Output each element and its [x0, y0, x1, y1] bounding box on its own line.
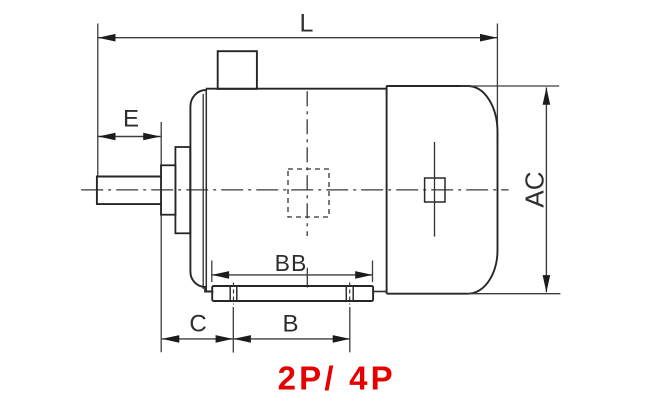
- bar to housing connector: [373, 291, 387, 293]
- svg-text:BB: BB: [275, 250, 308, 276]
- svg-text:L: L: [300, 10, 314, 38]
- extension line E right / C left (shared): [160, 122, 162, 352]
- dimension BB extension line left: [211, 261, 213, 283]
- svg-text:C: C: [189, 311, 206, 338]
- svg-text:B: B: [282, 311, 298, 338]
- centre line vertical (body): [306, 91, 308, 236]
- AC bottom extension line: [468, 293, 560, 295]
- dimension BB line: [212, 274, 373, 276]
- dimension BB arrow left: [212, 271, 229, 279]
- dimension B arrow left: [234, 335, 251, 343]
- rear housing small square: [425, 178, 445, 202]
- svg-text:E: E: [123, 106, 139, 133]
- foot base bar: [212, 286, 373, 301]
- rear housing vertical line: [434, 142, 436, 237]
- right foot bolt lines: [345, 286, 347, 301]
- dimension L extension line right: [496, 24, 498, 141]
- centre line stub above foot: [306, 268, 308, 288]
- AC top extension line: [460, 85, 559, 87]
- right bolt centre dashed: [349, 283, 351, 305]
- extension line below bar (C/B shared): [232, 307, 234, 353]
- rear housing left face: [386, 86, 388, 294]
- motor body top line: [206, 88, 387, 90]
- shaft: [97, 177, 161, 205]
- svg-text:AC: AC: [520, 171, 550, 207]
- dimension AC arrow bottom: [543, 275, 551, 292]
- dimension B line: [234, 338, 350, 340]
- dimension E arrow right: [143, 133, 160, 141]
- end bracket seam line outer: [205, 89, 207, 291]
- front end bracket outline: [190, 89, 213, 292]
- dimension BB arrow right: [355, 271, 372, 279]
- dimension C line: [162, 338, 233, 340]
- dimension C arrow left: [162, 335, 179, 343]
- left foot bolt lines: [229, 286, 231, 301]
- dimension BB extension line right: [372, 261, 374, 283]
- centre line horizontal: [81, 189, 508, 191]
- dimension L arrow left: [98, 34, 116, 42]
- dimension E line: [98, 136, 160, 138]
- rear housing outline: [387, 86, 498, 294]
- dimension E arrow left: [98, 133, 115, 141]
- dimension AC arrow top: [543, 88, 551, 105]
- dimension B arrow right: [333, 335, 350, 343]
- extension line B right: [349, 307, 351, 352]
- dimension AC line: [545, 88, 547, 293]
- dimension L line: [98, 37, 497, 39]
- shaft shoulder step 2: [175, 147, 190, 233]
- dimension L arrow right: [480, 34, 497, 42]
- dimension L extension line left: [97, 24, 99, 177]
- terminal box: [218, 51, 257, 89]
- dimension C arrow right: [216, 335, 233, 343]
- shaft shoulder step 1: [161, 165, 175, 214]
- left bolt centre dashed: [233, 283, 235, 305]
- end bracket seam line inner: [202, 94, 204, 289]
- svg-text:2P/ 4P: 2P/ 4P: [278, 360, 396, 397]
- dashed key square (body centre): [288, 169, 329, 217]
